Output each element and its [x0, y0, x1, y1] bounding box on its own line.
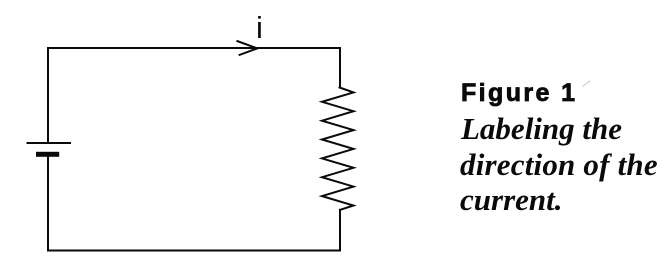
- battery B1: [28, 143, 71, 157]
- caption line 2: [460, 147, 658, 183]
- caption title: [461, 79, 577, 108]
- caption line 1: [461, 111, 622, 147]
- node label i (current): [256, 10, 263, 46]
- wire bottom: [48, 250, 340, 252]
- wire right lower (resistor to bottom-right corner): [339, 210, 341, 251]
- battery positive plate: [28, 142, 71, 144]
- caption line 3: [460, 182, 563, 218]
- wire left upper (top-left corner down to battery): [47, 48, 49, 143]
- battery negative plate: [36, 152, 59, 157]
- current arrow i: [237, 41, 257, 55]
- wire right upper (top-right corner to resistor): [339, 48, 341, 88]
- wire left lower (battery to bottom-left corner): [47, 157, 49, 251]
- wire top (left segment, node A to arrow): [48, 47, 250, 49]
- wire top (arrow to top-right corner): [250, 47, 340, 49]
- faint scan artifact near caption: [583, 81, 590, 86]
- resistor R: [322, 88, 354, 210]
